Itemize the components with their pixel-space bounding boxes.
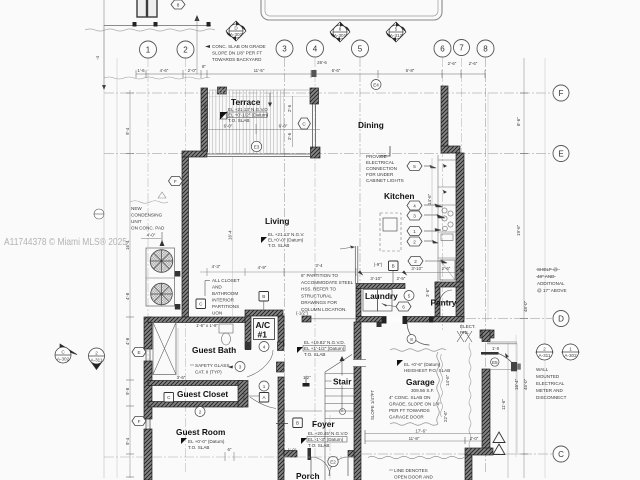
svg-text:6: 6 — [402, 305, 405, 310]
A/C closet east wall — [278, 316, 284, 346]
wavy grade line 2 — [104, 77, 210, 79]
svg-text:#1: #1 — [258, 330, 268, 340]
svg-text:SAFETY GLASS: SAFETY GLASS — [195, 363, 229, 368]
svg-text:2: 2 — [95, 351, 98, 356]
terrace deck hatch — [209, 90, 284, 153]
svg-text:ADDITIONAL: ADDITIONAL — [537, 281, 565, 286]
svg-text:Terrace: Terrace — [231, 97, 261, 107]
svg-text:A-311: A-311 — [539, 353, 551, 358]
svg-text:A11744378 © Miami MLS® 2025: A11744378 © Miami MLS® 2025 — [4, 237, 127, 248]
svg-text:ON CONC. PAD: ON CONC. PAD — [131, 226, 165, 231]
svg-text:A-302: A-302 — [564, 353, 577, 358]
svg-text:4: 4 — [313, 45, 318, 54]
garage south-east wall — [465, 448, 493, 455]
guest closet north wall — [148, 381, 243, 386]
centerline bottom left — [104, 456, 354, 458]
svg-text:EL +21.13' N.G.V.D: EL +21.13' N.G.V.D — [228, 107, 268, 112]
svg-text:8": 8" — [202, 64, 206, 69]
column grid4/rowE — [311, 147, 321, 158]
section flag A-302 right — [562, 344, 579, 360]
leader arrows kitchen — [424, 165, 447, 263]
guest closet south wall — [148, 402, 243, 408]
svg-text:EL +20.45' N.G.V.D: EL +20.45' N.G.V.D — [308, 431, 348, 436]
wavy line inside garage right — [469, 343, 471, 448]
wavy lines garage — [390, 349, 446, 352]
svg-text:3'-6": 3'-6" — [425, 288, 430, 297]
svg-text:INTERIOR: INTERIOR — [212, 298, 235, 303]
dining east wall — [441, 86, 448, 148]
svg-text:T.O. SLAB: T.O. SLAB — [304, 352, 325, 357]
svg-text:2'-2": 2'-2" — [242, 391, 247, 400]
terrace dim line mid — [207, 129, 320, 131]
svg-text:Kitchen: Kitchen — [384, 191, 414, 201]
foyer west wall — [278, 342, 284, 351]
tick marks on right dim line — [520, 93, 528, 454]
washer dryer — [363, 290, 378, 312]
main horizontal wall (row D) west part — [148, 317, 245, 323]
laundry west wall — [356, 289, 361, 317]
svg-text:ELECTRICAL: ELECTRICAL — [536, 381, 565, 386]
svg-text:11'-6": 11'-6" — [501, 399, 506, 410]
svg-text:8: 8 — [339, 27, 342, 32]
stair slab marker — [303, 383, 310, 387]
svg-text:1: 1 — [413, 229, 416, 234]
svg-text:AND: AND — [212, 285, 222, 290]
grid bubble 7 — [454, 40, 470, 56]
grid row E line — [104, 153, 552, 155]
grid row D line — [466, 318, 552, 320]
elect panel wall garage — [480, 330, 494, 338]
stair-garage wall — [354, 322, 361, 480]
section flag 2/A-311 left — [89, 348, 105, 370]
garage south wall stub down — [465, 455, 472, 480]
svg-text:BATHROOM: BATHROOM — [212, 291, 238, 296]
svg-text:TOWARDS BACKYARD: TOWARDS BACKYARD — [212, 57, 262, 62]
svg-text:16'-4: 16'-4 — [228, 230, 233, 240]
box A — [259, 393, 269, 403]
svg-text:8: 8 — [177, 3, 180, 8]
black jamb laundry south — [377, 322, 382, 327]
svg-text:14'-6": 14'-6" — [445, 374, 450, 386]
pool rounded rect top — [261, 0, 442, 20]
circle 2 closet — [195, 407, 205, 417]
svg-text:Stair: Stair — [333, 377, 352, 387]
svg-text:A-302: A-302 — [57, 357, 70, 362]
svg-text:9'-4: 9'-4 — [125, 127, 130, 135]
svg-text:1'-6: 1'-6 — [137, 68, 145, 73]
svg-text:F: F — [559, 89, 564, 98]
svg-text:14'-6": 14'-6" — [427, 193, 432, 205]
svg-text:9'-8: 9'-8 — [125, 387, 130, 395]
svg-text:26'-6: 26'-6 — [317, 60, 327, 65]
svg-text:4'-3": 4'-3" — [212, 264, 221, 269]
svg-text:EL +1'-1/2" (Datum): EL +1'-1/2" (Datum) — [304, 346, 345, 351]
svg-text:LINE DENOTES: LINE DENOTES — [394, 468, 428, 473]
bath door arc — [247, 350, 273, 377]
kitchen east wall — [456, 153, 464, 319]
dimension line left x=130 — [129, 90, 131, 478]
svg-text:4'-8: 4'-8 — [125, 292, 130, 300]
grid row F line — [104, 92, 552, 94]
svg-text:(-9"): (-9") — [374, 262, 383, 267]
svg-text:E5: E5 — [492, 360, 498, 365]
svg-text:T.O. SLAB: T.O. SLAB — [268, 243, 289, 248]
hexagon C terrace — [298, 118, 310, 129]
svg-text:5: 5 — [358, 45, 363, 54]
wall mounted meter — [511, 362, 517, 371]
svg-text:45'-0": 45'-0" — [523, 378, 528, 390]
svg-text:ACCOMMODATE STEEL: ACCOMMODATE STEEL — [301, 280, 354, 285]
svg-text:E3: E3 — [254, 145, 260, 150]
svg-text:2'-0": 2'-0" — [470, 436, 479, 441]
living vert dim line — [232, 157, 234, 316]
svg-text:ELECT.: ELECT. — [460, 324, 476, 329]
left exterior wall segment 1 — [144, 317, 152, 349]
svg-text:17'-6": 17'-6" — [415, 429, 427, 434]
stair landing line — [284, 410, 322, 412]
svg-text:HEIGHEST P.O. SLAB: HEIGHEST P.O. SLAB — [404, 368, 450, 373]
svg-text:PROVIDE: PROVIDE — [366, 154, 387, 159]
svg-text:11'-5": 11'-5" — [254, 68, 265, 73]
terrace west wall — [201, 88, 208, 152]
grid bubble 6 — [434, 40, 451, 57]
svg-text:1: 1 — [569, 347, 572, 352]
fridge box — [440, 260, 455, 280]
wavy existing-grade line top — [85, 29, 215, 31]
pantry door arc — [440, 290, 452, 302]
svg-text:E: E — [558, 150, 563, 159]
svg-text:4: 4 — [413, 204, 416, 209]
svg-text:A/C: A/C — [256, 320, 271, 330]
svg-text:PNL: PNL — [460, 330, 469, 335]
hexagon F left wall — [132, 417, 146, 426]
planter structure top-left — [137, 0, 157, 17]
svg-text:Guest Room: Guest Room — [176, 427, 225, 437]
svg-text:T.O. SLAB: T.O. SLAB — [228, 118, 249, 123]
door leaf — [481, 352, 499, 355]
svg-text:1'-0: 1'-0 — [492, 346, 500, 351]
living west wall upper corner — [182, 151, 207, 157]
svg-text:A-302: A-302 — [230, 32, 243, 37]
svg-text:UNIT: UNIT — [131, 219, 142, 224]
box B living — [259, 292, 269, 302]
svg-text:CAT. II (TYP): CAT. II (TYP) — [195, 370, 222, 375]
disconnect blocks — [175, 271, 181, 277]
circle E4 — [371, 80, 381, 90]
left exterior wall segment 2 — [144, 361, 152, 419]
svg-text:EL +21.13' N.G.V.: EL +21.13' N.G.V. — [268, 232, 304, 237]
circle E5 — [491, 358, 499, 366]
dimension line right x=524 — [523, 58, 525, 478]
rail line top-left — [104, 25, 211, 27]
svg-text:3: 3 — [239, 365, 242, 370]
svg-text:2: 2 — [199, 410, 202, 415]
svg-text:3'-10": 3'-10" — [411, 266, 423, 271]
svg-text:1/4"/FT SLOPE: 1/4"/FT SLOPE — [203, 103, 208, 133]
row bubble D — [553, 311, 569, 327]
bath fixtures — [219, 324, 233, 333]
grid bubble 4 — [307, 40, 324, 57]
svg-text:Porch: Porch — [296, 471, 320, 480]
section diamond 5/A-312 — [386, 22, 406, 42]
circle 3 — [235, 362, 245, 372]
tick marks on left dim line — [126, 93, 134, 477]
svg-text:WALL: WALL — [536, 367, 549, 372]
laundry door opening — [387, 316, 403, 324]
svg-text:2'-6: 2'-6 — [287, 132, 292, 140]
svg-text:E2: E2 — [330, 460, 336, 465]
pantry west wall — [435, 282, 440, 317]
condensing fan 2 — [151, 283, 173, 305]
svg-text:5: 5 — [408, 294, 411, 299]
svg-text:2'-6": 2'-6" — [469, 61, 478, 66]
dim 4'-0 condensing — [141, 238, 161, 240]
hexagon 6 laundry — [396, 302, 411, 311]
box B foyer — [293, 418, 303, 428]
svg-text:F: F — [138, 419, 141, 424]
guest closet east wall — [238, 381, 248, 408]
svg-text:4" CONC. SLAB ON: 4" CONC. SLAB ON — [389, 395, 430, 400]
circle E3 — [251, 141, 261, 151]
svg-text:EL+0'-0" (Datum): EL+0'-0" (Datum) — [268, 238, 304, 243]
svg-text:CABINET LIGHTS: CABINET LIGHTS — [366, 178, 404, 183]
stair center rail — [341, 359, 343, 412]
condensing unit pad — [146, 248, 175, 306]
grid line 2 vertical — [185, 58, 187, 474]
pantry north wall — [435, 282, 463, 287]
down arrow in terrace — [269, 93, 271, 103]
porch door wall west — [284, 451, 297, 458]
svg-text:A-311: A-311 — [91, 358, 103, 363]
svg-text:CONDENSING: CONDENSING — [131, 213, 163, 218]
living dim line y=272 — [200, 271, 356, 273]
svg-text:Guest Bath: Guest Bath — [192, 345, 236, 355]
svg-text:E4: E4 — [373, 83, 379, 88]
svg-text:4'-9": 4'-9" — [258, 265, 267, 270]
A/C closet west wall — [245, 316, 251, 349]
svg-text:4'-8: 4'-8 — [125, 337, 130, 345]
garage side door wall stub — [482, 330, 490, 342]
svg-text:EL -1'-3" (Datum): EL -1'-3" (Datum) — [308, 437, 344, 442]
svg-text:PARTITIONS: PARTITIONS — [212, 304, 239, 309]
svg-text:ALL CLOSET: ALL CLOSET — [212, 278, 240, 283]
svg-text:8'-6": 8'-6" — [516, 117, 521, 126]
svg-text:-4: -4 — [95, 56, 100, 60]
porch door arcs — [311, 457, 330, 476]
svg-text:Dining: Dining — [358, 120, 384, 130]
svg-text:SLOPE DN 1/8" PER FT: SLOPE DN 1/8" PER FT — [212, 51, 262, 56]
svg-text:2'-6": 2'-6" — [442, 266, 451, 271]
svg-text:(-1/2"): (-1/2") — [296, 311, 309, 316]
window left 2 — [146, 419, 150, 429]
row bubble C — [553, 446, 569, 462]
svg-text:5: 5 — [395, 27, 398, 32]
grid line 8 vertical — [485, 58, 487, 474]
svg-text:4: 4 — [263, 345, 266, 350]
grid bubble 3 — [276, 40, 293, 57]
grid line 5 vertical — [359, 58, 361, 474]
svg-text:B: B — [262, 294, 265, 299]
wavy grade line left — [130, 201, 168, 204]
svg-text:EL +0'-1/2" (Datum): EL +0'-1/2" (Datum) — [228, 113, 269, 118]
svg-text:ELECTRICAL: ELECTRICAL — [366, 160, 395, 165]
row bubble F — [553, 85, 569, 101]
svg-text:FOR UNDER: FOR UNDER — [366, 172, 394, 177]
construction line right x=516 — [515, 335, 517, 457]
grid bubble 8 — [477, 40, 494, 57]
svg-text:Laundry: Laundry — [365, 291, 398, 301]
circle 1 — [259, 381, 269, 391]
kitchen vert dim — [431, 158, 433, 240]
dining-kitchen east jog — [441, 146, 460, 153]
svg-text:11'-8": 11'-8" — [409, 436, 420, 441]
svg-text:T.O. SLAB: T.O. SLAB — [308, 443, 329, 448]
counter appliances — [438, 160, 456, 258]
laundry north wall — [356, 284, 405, 289]
kitchen counter line — [437, 155, 439, 282]
svg-text:6" PARTITION TO: 6" PARTITION TO — [301, 273, 338, 278]
svg-text:METER AND: METER AND — [536, 388, 563, 393]
svg-text:1/2": 1/2" — [303, 375, 311, 380]
svg-text:6'-0": 6'-0" — [224, 124, 233, 129]
svg-text:3'-10": 3'-10" — [370, 276, 382, 281]
section diamond D/A-302 — [226, 21, 246, 41]
svg-text:Guest Closet: Guest Closet — [177, 389, 228, 399]
construction line left x=117 — [116, 58, 118, 478]
kitchen hexagon callouts — [407, 162, 423, 266]
svg-text:1'-0": 1'-0" — [288, 448, 297, 453]
svg-text:6: 6 — [440, 45, 445, 54]
terrace-dining glass wall — [313, 104, 316, 147]
svg-text:1'-6" x 1'-8": 1'-6" x 1'-8" — [196, 323, 219, 328]
grid line 6 vertical — [442, 58, 444, 330]
left exterior wall segment 3 — [144, 429, 152, 480]
box C living — [196, 299, 206, 309]
svg-text:1: 1 — [263, 384, 266, 389]
svg-text:PER FT TOWARDS: PER FT TOWARDS — [389, 408, 430, 413]
box B kitchen — [389, 261, 399, 271]
floor edge line below partition — [311, 318, 356, 320]
door frame line — [490, 368, 517, 370]
left leader arrow — [103, 0, 105, 86]
svg-text:2'-5": 2'-5" — [397, 276, 406, 281]
svg-text:DISCONNECT: DISCONNECT — [536, 395, 567, 400]
svg-text:Living: Living — [265, 216, 289, 226]
svg-text:2: 2 — [414, 259, 417, 264]
svg-text:E: E — [137, 350, 140, 355]
svg-text:2'-6": 2'-6" — [448, 61, 457, 66]
svg-text:6'-0": 6'-0" — [279, 124, 288, 129]
svg-text:C: C — [558, 450, 564, 459]
x marks door — [457, 331, 472, 342]
grid bubble 1 — [140, 41, 157, 58]
svg-text:B: B — [392, 264, 395, 269]
grid line 3 vertical — [284, 58, 286, 474]
svg-text:7: 7 — [459, 44, 464, 53]
stair treads — [325, 372, 354, 480]
section diamond 8/A-301 — [330, 22, 350, 42]
svg-text:2'-6: 2'-6 — [287, 104, 292, 112]
small flag left middle — [94, 209, 104, 219]
grid line 1 vertical — [147, 58, 149, 474]
section flag C/A-302 left — [55, 344, 77, 363]
svg-text:8: 8 — [410, 337, 413, 342]
circle 5 laundry — [404, 291, 414, 301]
closet door arc — [250, 397, 276, 409]
shower x-box — [153, 323, 176, 375]
svg-text:2: 2 — [543, 347, 546, 352]
svg-text:MOUNTED: MOUNTED — [536, 374, 560, 379]
terrace-dining mullion top block — [310, 88, 319, 104]
terrace sill line — [207, 154, 311, 157]
garage interior door arc — [407, 323, 430, 346]
svg-text:NEW: NEW — [131, 206, 142, 211]
kitchen island dashed — [380, 213, 401, 251]
grid bubble 2 — [177, 41, 194, 58]
window left 1 — [146, 349, 150, 361]
svg-text:48'-0": 48'-0" — [523, 300, 528, 312]
svg-text:19'-6": 19'-6" — [516, 224, 521, 236]
svg-text:HSS. REFER TO: HSS. REFER TO — [301, 287, 336, 292]
svg-text:Pantry: Pantry — [431, 298, 457, 308]
svg-text:9'-4: 9'-4 — [125, 437, 130, 445]
hexagon E left wall — [132, 348, 146, 357]
grid row C line — [362, 453, 552, 455]
circle E2 — [328, 456, 338, 466]
svg-text:D: D — [558, 315, 564, 324]
svg-text:SLOPE 1/4"/FT: SLOPE 1/4"/FT — [370, 390, 375, 420]
row bubble E — [553, 146, 569, 162]
svg-text:@ 17" ABOVE: @ 17" ABOVE — [537, 288, 567, 293]
svg-text:DRAWINGS FOR: DRAWINGS FOR — [301, 300, 338, 305]
circle 4 — [259, 342, 269, 352]
partition double line above laundry — [355, 246, 358, 284]
construction line right x=488 — [487, 93, 489, 320]
warning triangles — [493, 432, 505, 455]
small wall block right of AC — [302, 316, 311, 322]
svg-text:A-312: A-312 — [390, 33, 403, 38]
svg-text:4'-6": 4'-6" — [160, 68, 169, 73]
garage east wall — [482, 369, 490, 450]
svg-text:EL +0'-0" (Datum): EL +0'-0" (Datum) — [188, 439, 225, 444]
svg-text:Foyer: Foyer — [312, 419, 335, 429]
svg-text:3: 3 — [282, 45, 287, 54]
main horizontal wall (row D) east part — [356, 317, 464, 323]
top dimension line — [136, 70, 485, 78]
svg-text:EL +0'-6" (Datum): EL +0'-6" (Datum) — [404, 362, 441, 367]
svg-text:F: F — [174, 179, 177, 184]
svg-text:4'-0": 4'-0" — [147, 233, 156, 238]
door header lines — [487, 341, 517, 343]
living west wall — [182, 157, 189, 317]
grid bubble 5 — [352, 40, 369, 57]
A/C closet north wall — [245, 310, 283, 316]
svg-text:STRUCTURAL: STRUCTURAL — [301, 293, 332, 298]
svg-text:OPEN DOOR AND: OPEN DOOR AND — [394, 475, 433, 480]
svg-text:B: B — [296, 421, 299, 426]
svg-text:2'-0": 2'-0" — [188, 68, 197, 73]
svg-text:6": 6" — [227, 447, 231, 452]
terrace right vert dim — [292, 96, 294, 147]
svg-text:CONC. SLAB ON GRADE: CONC. SLAB ON GRADE — [212, 44, 266, 49]
grid line 4 vertical — [314, 58, 316, 460]
leader arrow up — [195, 15, 200, 21]
garage side door arc — [499, 354, 517, 371]
grid line 7 vertical — [461, 58, 463, 330]
svg-text:2: 2 — [183, 46, 188, 55]
svg-text:T.O. SLAB: T.O. SLAB — [188, 445, 209, 450]
construction line right x=545 — [544, 58, 546, 478]
